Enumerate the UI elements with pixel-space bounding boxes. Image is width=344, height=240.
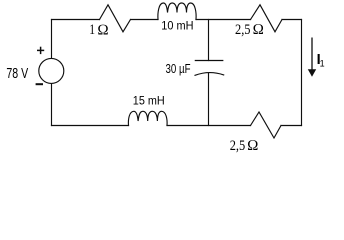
capacitor C1 bottom plate — [195, 73, 224, 76]
wire left-bottom vertical — [51, 84, 53, 126]
wire top segment C — [196, 19, 251, 21]
resistor R2 — [251, 5, 283, 32]
wire top segment A — [52, 19, 100, 21]
svg-text:Ω: Ω — [247, 138, 259, 154]
resistor R3 — [251, 112, 282, 138]
wire top segment D — [282, 19, 302, 21]
svg-text:78 V: 78 V — [6, 65, 28, 82]
svg-text:1: 1 — [89, 22, 95, 38]
wire bottom segment C — [281, 125, 302, 127]
svg-text:2,5: 2,5 — [230, 138, 246, 154]
svg-text:2,5: 2,5 — [235, 22, 251, 38]
wire bottom segment B — [167, 125, 251, 127]
wire right vertical — [301, 20, 303, 126]
voltage source minus sign — [36, 83, 43, 85]
wire left-top vertical — [51, 20, 53, 59]
svg-text:30 µF: 30 µF — [166, 62, 191, 76]
wire capacitor branch top — [208, 20, 210, 61]
inductor L2 — [128, 111, 167, 125]
svg-text:10 mH: 10 mH — [161, 19, 193, 32]
voltage source V1 circle — [39, 58, 64, 83]
current arrow I1 — [308, 38, 316, 77]
svg-text:Ω: Ω — [253, 22, 265, 38]
wire bottom segment A — [52, 125, 129, 127]
capacitor C1 top plate — [195, 60, 223, 62]
inductor L1 — [158, 3, 196, 20]
resistor R1 — [100, 5, 131, 32]
wire capacitor branch bottom — [208, 73, 210, 126]
svg-text:Ω: Ω — [97, 22, 109, 38]
svg-text:1: 1 — [320, 59, 325, 69]
svg-text:15 mH: 15 mH — [133, 95, 165, 108]
voltage source plus sign — [37, 47, 44, 54]
wire top segment B — [131, 19, 159, 21]
